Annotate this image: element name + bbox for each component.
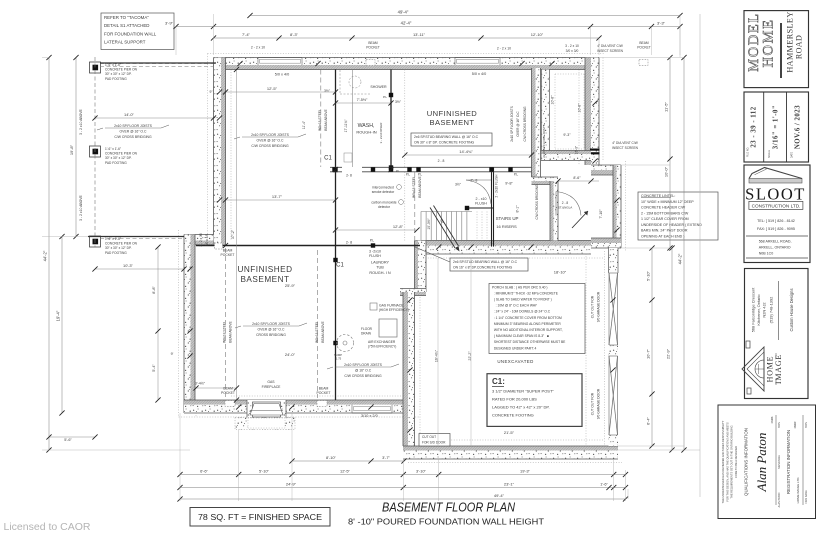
svg-text:Custom House Designs: Custom House Designs: [789, 288, 794, 331]
svg-text:2x10 SP.FLOOR JOISTS: 2x10 SP.FLOOR JOISTS: [114, 124, 153, 128]
svg-text:10'-3": 10'-3": [123, 263, 134, 268]
svg-text:25'-9": 25'-9": [285, 283, 296, 288]
svg-text:3½": 3½": [324, 89, 331, 93]
svg-text:smoke detector: smoke detector: [372, 190, 395, 194]
svg-text:13'-7": 13'-7": [272, 194, 283, 199]
svg-text:P.L: P.L: [514, 173, 519, 177]
svg-text:BEAM: BEAM: [368, 41, 378, 45]
svg-text:C1: C1: [324, 156, 332, 162]
svg-text:1 1/2" CLEAR COVER FROM: 1 1/2" CLEAR COVER FROM: [641, 217, 689, 221]
svg-text:1'-6" x 1'-6": 1'-6" x 1'-6": [105, 63, 121, 67]
svg-text:11'-4": 11'-4": [302, 120, 306, 129]
svg-text:SHOWER: SHOWER: [370, 85, 387, 89]
svg-text:8'-3": 8'-3": [290, 32, 299, 37]
svg-text:3/16" = 1'-0": 3/16" = 1'-0": [773, 105, 780, 149]
svg-text:WASH,: WASH,: [358, 123, 375, 129]
svg-text:FAX: [ 519 ] 826 - 9095: FAX: [ 519 ] 826 - 9095: [757, 227, 795, 231]
svg-text:ALAN PATON: ALAN PATON: [778, 492, 781, 507]
svg-text:C/W CROSS BRIDGING: C/W CROSS BRIDGING: [251, 144, 289, 148]
svg-text:carbon monoxide: carbon monoxide: [371, 201, 396, 205]
svg-text:19'-4": 19'-4": [56, 310, 61, 321]
svg-text:: 24" x 24" - 10M DOWELS @ 24": : 24" x 24" - 10M DOWELS @ 24" O.C: [492, 310, 551, 314]
svg-text:C/W CROSS BRIDGING: C/W CROSS BRIDGING: [523, 106, 527, 142]
svg-text:23 - 39 - 112: 23 - 39 - 112: [751, 106, 758, 147]
svg-text:SHORTEST DISTANCE OTHERWISE MU: SHORTEST DISTANCE OTHERWISE MUST BE: [492, 340, 566, 344]
svg-text:OVER @ 16" O.C: OVER @ 16" O.C: [257, 139, 284, 143]
svg-text:2 - 2 x 10: 2 - 2 x 10: [497, 47, 511, 51]
svg-text:CUT OUT: CUT OUT: [422, 435, 436, 439]
svg-text:UNDERSIDE OF HEADER ( EXTEND: UNDERSIDE OF HEADER ( EXTEND: [641, 223, 702, 227]
svg-text:CONCRETE PIER ON: CONCRETE PIER ON: [105, 68, 138, 72]
svg-text:2 - x10: 2 - x10: [476, 197, 487, 201]
svg-text:3 1/2" DIAMETER "SUPER POST": 3 1/2" DIAMETER "SUPER POST": [492, 389, 554, 394]
svg-text:SIGNATURE: SIGNATURE: [778, 455, 781, 469]
svg-text:(75% EFFICIENCY): (75% EFFICIENCY): [368, 345, 396, 349]
svg-text:2- 8: 2- 8: [346, 174, 352, 178]
svg-text:8'-1": 8'-1": [516, 205, 520, 213]
svg-text:16'-3": 16'-3": [575, 145, 579, 154]
svg-text:(1.75: (1.75: [335, 357, 342, 361]
svg-text:DATE: DATE: [791, 151, 794, 158]
svg-text:DETAIL S1 ATTACHED: DETAIL S1 ATTACHED: [104, 23, 149, 28]
svg-text:11'-5": 11'-5": [664, 101, 669, 111]
svg-text:INSECT SCREEN: INSECT SCREEN: [597, 49, 623, 53]
svg-text:8'-8": 8'-8": [152, 286, 156, 294]
svg-text:POCKET: POCKET: [221, 391, 235, 395]
svg-text:QUALIFICATIONS INFORMATION: QUALIFICATIONS INFORMATION: [744, 428, 749, 496]
svg-text:REFER TO "TACOMA": REFER TO "TACOMA": [104, 15, 149, 20]
svg-text:5'-6": 5'-6": [64, 438, 72, 442]
svg-text:19'-3": 19'-3": [520, 469, 531, 474]
svg-text:44'-2": 44'-2": [678, 253, 683, 264]
svg-text:37'-2": 37'-2": [231, 229, 235, 239]
svg-text:BCIN: BCIN: [805, 422, 808, 428]
svg-text:CONCRETE PIER ON: CONCRETE PIER ON: [105, 152, 138, 156]
svg-text:12'-5": 12'-5": [340, 469, 351, 474]
svg-text:FIREPLACE: FIREPLACE: [262, 385, 282, 389]
svg-text:ON 16" x 8" DP.CONCRETE FOOTIN: ON 16" x 8" DP.CONCRETE FOOTING: [453, 266, 513, 270]
svg-text:Licensed to CAOR: Licensed to CAOR: [4, 521, 91, 533]
svg-text:ROUGH-IN: ROUGH-IN: [356, 130, 376, 135]
svg-text:W8x18 STEEL: W8x18 STEEL: [223, 321, 227, 343]
svg-text:28869: 28869: [794, 421, 797, 428]
svg-text:PAD FOOTING: PAD FOOTING: [105, 161, 127, 165]
svg-text:4" DIA.VENT C/W: 4" DIA.VENT C/W: [597, 44, 623, 48]
svg-text:3'-7": 3'-7": [382, 455, 390, 460]
svg-text:9': 9': [171, 352, 174, 356]
svg-text:NOV.6 / 2023: NOV.6 / 2023: [795, 105, 802, 149]
svg-text:OVER @ 16" O.C: OVER @ 16" O.C: [120, 130, 147, 134]
svg-text:AIR EXCHANGER: AIR EXCHANGER: [368, 340, 396, 344]
svg-text:2'- 8: 2'- 8: [471, 179, 478, 183]
svg-text:8'-6": 8'-6": [573, 176, 581, 180]
svg-text:( SLAB TO SHED WATER TO FRONT: ( SLAB TO SHED WATER TO FRONT ): [492, 298, 552, 302]
svg-text:BEAM ABOVE: BEAM ABOVE: [321, 320, 325, 342]
svg-text:FOR THIS DESIGN, AND HAS THE: FOR THIS DESIGN, AND HAS THE QUALIFICATI…: [725, 422, 729, 502]
svg-text:BASEMENT: BASEMENT: [240, 275, 289, 284]
svg-text:2 - 8: 2 - 8: [438, 159, 445, 163]
svg-text:2 - 2x10 FLUSH: 2 - 2x10 FLUSH: [495, 174, 499, 198]
svg-text:78 SQ. FT = FINISHED SPAC: 78 SQ. FT = FINISHED SPACE: [198, 513, 322, 522]
svg-text:49'-4": 49'-4": [398, 10, 409, 15]
svg-text:FOR S/D DOOR: FOR S/D DOOR: [422, 441, 446, 445]
svg-text:23088: 23088: [771, 416, 774, 423]
svg-text:12'-10": 12'-10": [531, 32, 544, 37]
svg-text:2x10 SP.FLOOR JOISTS: 2x10 SP.FLOOR JOISTS: [252, 322, 291, 326]
svg-text:ARKELL, ONTARIO: ARKELL, ONTARIO: [759, 246, 791, 250]
svg-text:FOR FOUNDATION WALL: FOR FOUNDATION WALL: [104, 31, 157, 36]
svg-text:FILE NO.: FILE NO.: [747, 147, 750, 157]
svg-text:(HIGH EFFICIENCY): (HIGH EFFICIENCY): [379, 308, 409, 312]
svg-text:LAGGED TO 42" x 42" x 20": LAGGED TO 42" x 42" x 20" DP.: [492, 405, 550, 410]
svg-text:30" x 30" x 12" DP.: 30" x 30" x 12" DP.: [105, 246, 132, 250]
svg-text:FLUSH: FLUSH: [369, 254, 381, 258]
svg-text:HOME IMAGE LTD.: HOME IMAGE LTD.: [796, 477, 800, 504]
svg-text:P.L: P.L: [418, 173, 423, 177]
svg-text:3½": 3½": [455, 183, 462, 187]
svg-text:30" x 30" x 12" DP.: 30" x 30" x 12" DP.: [105, 72, 132, 76]
svg-text:2 - 8: 2 - 8: [562, 201, 569, 205]
svg-text:17'-11¾": 17'-11¾": [344, 119, 348, 133]
svg-text:1'-6": 1'-6": [600, 483, 608, 487]
svg-text:PAD FOOTING: PAD FOOTING: [105, 77, 127, 81]
svg-text:1'-6" x 1'-6": 1'-6" x 1'-6": [105, 147, 121, 151]
svg-text:9'-8": 9'-8": [505, 182, 513, 186]
svg-text:10'-0": 10'-0": [664, 166, 669, 177]
svg-text:BARS MIN. 24" PAST DOOR: BARS MIN. 24" PAST DOOR: [641, 229, 688, 233]
svg-text:8'-10": 8'-10": [326, 455, 337, 460]
svg-text:P.L: P.L: [383, 95, 387, 99]
svg-text:2x6 SP.STUD BEARING WALL @ 16": 2x6 SP.STUD BEARING WALL @ 16" O.C: [414, 135, 479, 139]
svg-text:3/10 x 2/0: 3/10 x 2/0: [361, 414, 378, 418]
svg-text:Alan Paton: Alan Paton: [754, 433, 769, 493]
svg-text:POCKET: POCKET: [317, 391, 331, 395]
svg-text:5'-10": 5'-10": [259, 469, 270, 474]
svg-text:10" WIDE x MINIMUM 12" DEEP: 10" WIDE x MINIMUM 12" DEEP: [641, 200, 694, 204]
svg-text:POCKET: POCKET: [221, 253, 235, 257]
svg-text:INSECT SCREEN: INSECT SCREEN: [612, 146, 638, 150]
svg-text:5/0 x 4/0: 5/0 x 4/0: [472, 72, 487, 76]
svg-text:2- 8: 2- 8: [346, 241, 352, 245]
svg-text:3/0 x 4/0: 3/0 x 4/0: [205, 234, 209, 246]
svg-text:: MINIMUM 5" THICK -32 MPa CON: : MINIMUM 5" THICK -32 MPa CONCRETE: [492, 291, 559, 295]
svg-text:568 ARKELL ROAD,: 568 ARKELL ROAD,: [759, 240, 792, 244]
svg-text:3/0 x 3/0: 3/0 x 3/0: [566, 49, 579, 53]
svg-text:3 -2x10: 3 -2x10: [369, 250, 381, 254]
svg-text:BEAM: BEAM: [223, 387, 233, 391]
svg-text:WITH NO ADDITIONAL INTERIOR SU: WITH NO ADDITIONAL INTERIOR SUPPORT,: [492, 328, 563, 332]
svg-text:TEL: [ 519 ] 826 - 8142: TEL: [ 519 ] 826 - 8142: [757, 219, 795, 223]
svg-text:P.L: P.L: [396, 169, 400, 173]
svg-text:CROSS BRIDGING: CROSS BRIDGING: [256, 333, 286, 337]
svg-text:OVER @ 16" O.C: OVER @ 16" O.C: [258, 328, 285, 332]
svg-text:detector: detector: [378, 205, 391, 209]
svg-text:2x6 SP.STUD BEARING WALL @ 16": 2x6 SP.STUD BEARING WALL @ 16" O.C: [453, 260, 518, 264]
svg-text:W8x18 STEEL: W8x18 STEEL: [412, 176, 416, 198]
svg-text:2x10 SP.FLOOR JOISTS: 2x10 SP.FLOOR JOISTS: [510, 106, 514, 142]
svg-text:BASEMENT FLOOR PLAN: BASEMENT FLOOR PLAN: [382, 500, 516, 515]
svg-text:10'-8": 10'-8": [578, 103, 582, 113]
svg-text:OPENING AT EACH END ): OPENING AT EACH END ): [641, 234, 684, 238]
svg-text:49'-4": 49'-4": [494, 493, 505, 498]
svg-text:7'-10": 7'-10": [599, 209, 603, 219]
svg-text:TUB: TUB: [376, 266, 384, 270]
svg-text:ON 30" x 8" DP. CONCRETE FOOT: ON 30" x 8" DP. CONCRETE FOOTING: [414, 141, 475, 145]
svg-text:12'-8": 12'-8": [393, 224, 404, 229]
svg-text:ST.&NGLA: ST.&NGLA: [558, 206, 573, 210]
svg-text:THE UNDERSIGNED HAS REVIEWED A: THE UNDERSIGNED HAS REVIEWED AND TAKES R…: [721, 420, 725, 503]
svg-text:8' -10" POURED FOUNDATION: 8' -10" POURED FOUNDATION WALL HEIGHT: [348, 517, 544, 527]
svg-text:ROUGH- I N: ROUGH- I N: [369, 271, 391, 275]
svg-text:PAD FOOTING: PAD FOOTING: [105, 251, 127, 255]
svg-text:BCIN: BCIN: [778, 422, 781, 428]
svg-text:9/0 GARAGE DOOR: 9/0 GARAGE DOOR: [597, 388, 601, 419]
svg-text:SLOOT: SLOOT: [745, 185, 806, 204]
svg-text:16 RISERS: 16 RISERS: [496, 224, 517, 229]
svg-text:3½": 3½": [395, 100, 402, 104]
svg-text:6'-4": 6'-4": [646, 417, 651, 425]
svg-text:W8x18 STEEL: W8x18 STEEL: [315, 321, 319, 343]
svg-text:2 - 2 x 10: 2 - 2 x 10: [251, 46, 265, 50]
svg-text:23'-1": 23'-1": [504, 482, 515, 487]
svg-text:@ 16" O.C: @ 16" O.C: [355, 369, 372, 373]
svg-text:9'-3": 9'-3": [563, 133, 571, 137]
svg-text:GAS FURNACE: GAS FURNACE: [379, 304, 404, 308]
svg-text:GAS: GAS: [267, 380, 275, 384]
svg-text:2x10 SP.FLOOR JOISTS: 2x10 SP.FLOOR JOISTS: [542, 124, 546, 157]
svg-text:22'-9": 22'-9": [666, 348, 671, 359]
svg-text:UNEXCAVATED: UNEXCAVATED: [497, 359, 533, 364]
svg-text:C/W CROSS BRIDGING: C/W CROSS BRIDGING: [344, 374, 382, 378]
svg-text:RATED FOR 20,000 LBS: RATED FOR 20,000 LBS: [492, 397, 537, 402]
svg-text:W8x18 STEEL: W8x18 STEEL: [318, 109, 322, 131]
svg-text:6'-6": 6'-6": [200, 469, 208, 474]
svg-text:LATERAL SUPPORT: LATERAL SUPPORT: [104, 40, 146, 45]
svg-text:19'-8": 19'-8": [69, 144, 74, 155]
svg-text:14'-4¾": 14'-4¾": [459, 149, 473, 154]
svg-text:3 - 2x10 RISER: 3 - 2x10 RISER: [379, 122, 383, 144]
svg-text:interconnected: interconnected: [372, 186, 394, 190]
svg-text:N0B 1C0: N0B 1C0: [759, 252, 774, 256]
svg-text:STAIRS UP: STAIRS UP: [496, 216, 519, 221]
svg-text:3'-10": 3'-10": [416, 469, 427, 474]
svg-text:30" x 30" x 12" DP.: 30" x 30" x 12" DP.: [105, 156, 132, 160]
svg-text:CONSTRUCTION LTD.: CONSTRUCTION LTD.: [752, 203, 801, 208]
svg-text:3 - 2 x10 ABOVE: 3 - 2 x10 ABOVE: [79, 194, 83, 220]
svg-text:LAUNDRY: LAUNDRY: [371, 261, 390, 265]
svg-text:POCKET: POCKET: [366, 46, 380, 50]
svg-text:SCALE: SCALE: [768, 150, 771, 158]
svg-text:DRAIN: DRAIN: [361, 331, 372, 335]
svg-text:N2N 4J2: N2N 4J2: [762, 302, 767, 317]
svg-text:2 - 15M BOTTOM BARS C/W: 2 - 15M BOTTOM BARS C/W: [641, 211, 689, 215]
svg-text:42'-4": 42'-4": [401, 21, 412, 26]
svg-text:THE REQUIREMENTS SET OUT IN TH: THE REQUIREMENTS SET OUT IN THE ONTARIO …: [730, 425, 734, 498]
svg-text:CONCRETE PIER ON: CONCRETE PIER ON: [105, 242, 138, 246]
svg-text:HOME: HOME: [761, 18, 777, 67]
svg-text:24'-9": 24'-9": [286, 482, 297, 487]
svg-text:BEAM: BEAM: [319, 387, 329, 391]
svg-text:DESIGNED UNDER PART: 4: DESIGNED UNDER PART: 4: [492, 346, 537, 350]
svg-text:( MAXIMUM CLEAR SPAN IS 8-3": ( MAXIMUM CLEAR SPAN IS 8-3" ■: [492, 334, 549, 338]
svg-text:BASEMENT: BASEMENT: [430, 118, 475, 127]
svg-text:HAMMERSLEY: HAMMERSLEY: [786, 11, 795, 72]
svg-text:2x10 SP.FLOOR JOISTS: 2x10 SP.FLOOR JOISTS: [251, 133, 290, 137]
svg-text:P.L: P.L: [370, 239, 375, 243]
svg-text:UNFINISHED: UNFINISHED: [237, 265, 292, 274]
svg-text:BEAM: BEAM: [639, 41, 649, 45]
svg-text:21'-5": 21'-5": [504, 430, 515, 435]
svg-text:10'-0½": 10'-0½": [427, 218, 431, 230]
svg-text:BEAM ABOVE: BEAM ABOVE: [324, 108, 328, 130]
svg-text:BEAM: BEAM: [223, 249, 233, 253]
svg-text:: 1 1/4" CONCRETE COVER FROM B: : 1 1/4" CONCRETE COVER FROM BOTTOM: [492, 316, 562, 320]
svg-text:CUT OUT FOR: CUT OUT FOR: [591, 295, 595, 318]
svg-text:BEAM ABOVE: BEAM ABOVE: [229, 320, 233, 342]
svg-text:(519) 748-1392: (519) 748-1392: [769, 297, 774, 324]
svg-text:Kitchener, Ontario: Kitchener, Ontario: [756, 294, 761, 325]
svg-text:14'-0": 14'-0": [124, 112, 135, 117]
svg-text:CUT OUT FOR: CUT OUT FOR: [591, 392, 595, 415]
svg-text:7'-4": 7'-4": [242, 32, 251, 37]
svg-text:C/W CROSS BRIDGING: C/W CROSS BRIDGING: [114, 135, 152, 139]
svg-text:24'-0": 24'-0": [285, 352, 296, 357]
svg-text:5/0 x 4/0: 5/0 x 4/0: [275, 73, 290, 77]
svg-text:18'-10": 18'-10": [554, 270, 567, 275]
svg-text:2x10 SP.FLOOR JOISTS: 2x10 SP.FLOOR JOISTS: [344, 363, 383, 367]
svg-text:12'-5": 12'-5": [267, 86, 278, 91]
svg-text:10'-8": 10'-8": [551, 95, 555, 105]
svg-text:BEAM ABOVE: BEAM ABOVE: [418, 175, 422, 197]
svg-text:13'-11": 13'-11": [413, 32, 426, 37]
svg-text:FLUSH: FLUSH: [475, 202, 487, 206]
svg-text:4" DIA.VENT C/W: 4" DIA.VENT C/W: [612, 141, 638, 145]
svg-text:POCKET: POCKET: [637, 46, 651, 50]
svg-text:9/0 GARAGE DOOR: 9/0 GARAGE DOOR: [597, 291, 601, 322]
svg-text:568 Falconridge Crescent: 568 Falconridge Crescent: [751, 287, 756, 332]
svg-text:3'-3": 3'-3": [657, 21, 666, 26]
svg-text:C/W CROSS BRIDGING: C/W CROSS BRIDGING: [535, 184, 539, 220]
svg-text:22'-2": 22'-2": [468, 351, 472, 361]
svg-text:44'-2": 44'-2": [43, 250, 48, 261]
svg-text:P.L: P.L: [406, 173, 411, 177]
svg-text:5'-10": 5'-10": [646, 270, 651, 281]
svg-text:CODE TO BE A DESIGNER: CODE TO BE A DESIGNER: [734, 446, 738, 478]
svg-text:PORCH SLAB : ( AS PER ORC 9.: PORCH SLAB : ( AS PER ORC 9.40 ): [492, 285, 548, 289]
svg-text:5'-4": 5'-4": [152, 364, 156, 372]
svg-text:OVER @ 16" O.C: OVER @ 16" O.C: [516, 111, 520, 137]
svg-text:2 - 2 x 10: 2 - 2 x 10: [199, 233, 203, 247]
svg-text:ROAD: ROAD: [795, 35, 804, 59]
svg-text:7'-5½": 7'-5½": [357, 98, 368, 102]
svg-text:3 - 2 x 10: 3 - 2 x 10: [565, 44, 579, 48]
svg-text:3 - 2 x10 ABOVE: 3 - 2 x10 ABOVE: [79, 108, 83, 134]
svg-text:1'-6" x 1'-6": 1'-6" x 1'-6": [105, 237, 121, 241]
svg-text:FIRM NAME: FIRM NAME: [805, 490, 808, 504]
svg-text:UNFINISHED: UNFINISHED: [427, 109, 478, 118]
svg-text:MINIMUM 3" BEARING ALONG PERIM: MINIMUM 3" BEARING ALONG PERIMETER: [492, 322, 561, 326]
svg-text:3'-4½": 3'-4½": [195, 382, 206, 386]
svg-text:REGISTRATION INFORMATION: REGISTRATION INFORMATION: [786, 430, 791, 494]
svg-text:C1: C1: [336, 263, 344, 269]
svg-text:C1:: C1:: [492, 377, 505, 386]
svg-text:CONCRETE FOOTING: CONCRETE FOOTING: [492, 413, 534, 418]
svg-text:: 10M @ 8" O.C EACH WAY: : 10M @ 8" O.C EACH WAY: [492, 304, 538, 308]
svg-text:IMAGE: IMAGE: [774, 354, 783, 384]
svg-text:10'-7": 10'-7": [646, 348, 651, 359]
svg-text:3'-9": 3'-9": [165, 21, 174, 26]
svg-text:CONCRETE HEADER C/W: CONCRETE HEADER C/W: [641, 206, 686, 210]
